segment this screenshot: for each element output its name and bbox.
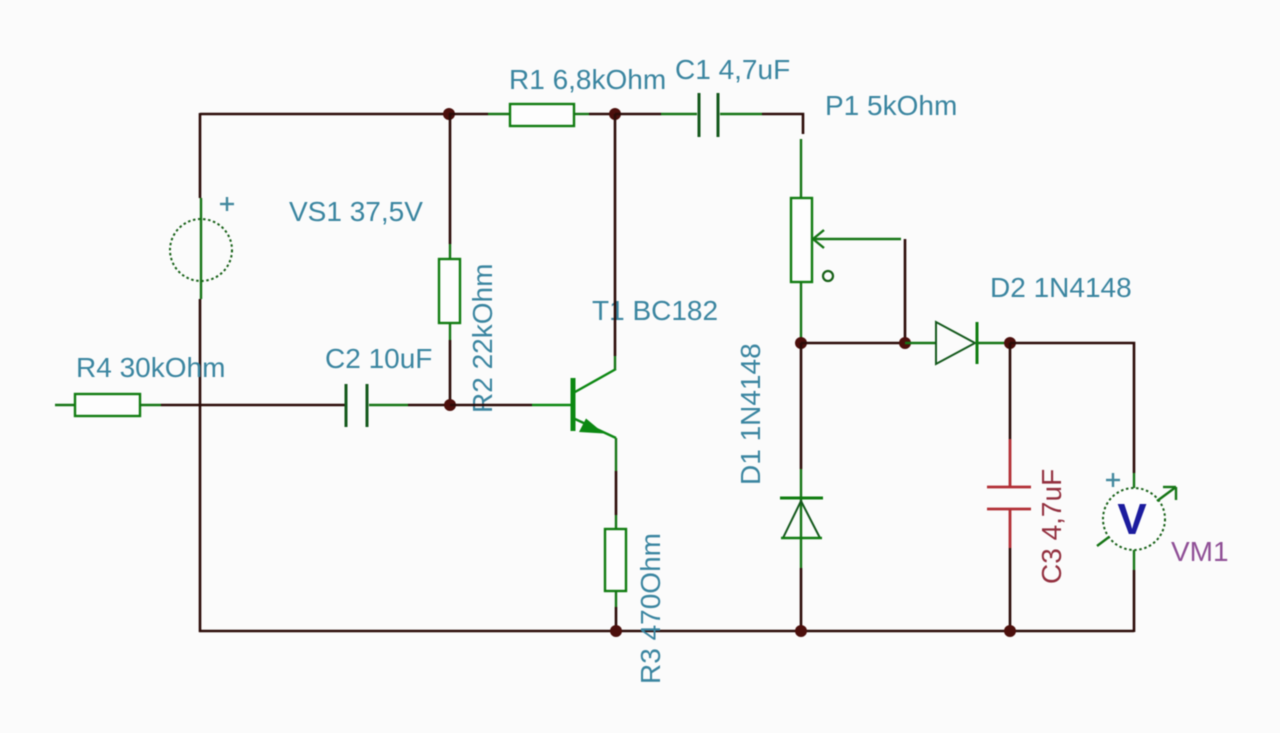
wire D1 top (node C down) [800,343,803,469]
resistor R2 [439,259,460,323]
wire C3 to node I [1009,548,1012,631]
svg-text:R1 6,8kOhm: R1 6,8kOhm [509,64,666,95]
node E (D2 cathode junction) [1004,337,1016,349]
wire node D to D2 [905,342,936,344]
wire T1 emitter lead [615,438,617,471]
svg-text:C2 10uF: C2 10uF [325,343,432,374]
wire C1 left lead [661,113,697,115]
wire R1 right lead [574,113,589,115]
wire R4 to C2 [161,404,345,407]
wire P1 wiper down [904,239,907,343]
wire R2 bottom lead [449,323,451,340]
wire node F to T1 base [450,404,532,407]
svg-text:V: V [1117,495,1147,544]
node H (D1 anode junction) [795,625,807,637]
wire C2 right lead [369,404,408,406]
wire P1 top lead [800,139,802,198]
capacitor C3 [987,439,1031,548]
capacitor C1 [699,93,718,137]
P1 wiper arrow [813,230,901,248]
transistor T1 [573,369,616,438]
svg-text:D1 1N4148: D1 1N4148 [735,343,766,485]
node G (emitter ground junction) [610,625,622,637]
wire C2 to node F [408,404,450,407]
wire D2 right lead [977,342,1004,344]
node A (top junction to R2) [443,108,455,120]
VM1 plus polarity mark [1106,473,1120,487]
resistor R1 [510,104,574,126]
wire R2 top (node A down) [449,114,452,244]
wire R3 to node G [615,607,618,631]
wire R3 bottom lead [615,591,617,607]
svg-text:D2 1N4148: D2 1N4148 [990,272,1132,303]
wire node C to node D [801,342,905,345]
svg-text:VS1 37,5V: VS1 37,5V [289,196,423,227]
svg-text:VM1: VM1 [1171,536,1229,567]
wire C3 top (node E down) [1009,343,1012,439]
capacitor C2 [346,384,367,427]
wire left rail bottom [199,299,202,632]
wire left rail through source (green) [200,198,202,299]
VS1 plus polarity mark [220,197,234,211]
wire R3 top lead [615,515,617,529]
svg-text:P1 5kOhm: P1 5kOhm [825,90,957,121]
wire R1 to node B [589,113,615,116]
wire D1 cathode lead [800,469,802,568]
svg-text:C1 4,7uF: C1 4,7uF [675,54,790,85]
wire bottom rail [199,630,1134,633]
wire P1 bottom lead [800,282,802,338]
wire C1 to P1 corner [762,114,803,134]
voltage source VS1 [170,219,232,281]
node B (collector junction) [609,108,621,120]
resistor R4 [75,394,140,416]
svg-text:R2 22kOhm: R2 22kOhm [467,264,498,413]
wire C1 right lead [720,113,762,115]
wire node A to R1 [449,113,488,116]
wire R2 to node F [449,340,452,405]
svg-text:R3 470Ohm: R3 470Ohm [635,533,666,684]
node D (wiper junction) [899,337,911,349]
wire VM1 top lead [1133,473,1135,488]
P1 terminal circle [823,271,833,281]
voltmeter VM1 [1097,487,1176,550]
wire R2 top lead [449,244,451,259]
node F (base junction) [444,399,456,411]
wire R1 left lead [488,113,510,115]
wire node E to VM corner [1010,343,1134,473]
svg-text:C3 4,7uF: C3 4,7uF [1036,469,1067,584]
wire T1 collector lead [614,356,616,369]
wire VM1 to bottom rail [1133,570,1136,632]
wire node B to C1 [615,113,661,116]
potentiometer P1 [791,198,812,282]
wire D1 to node H [800,568,803,631]
wire top rail left segment [200,113,449,116]
node C (pot bottom junction) [795,337,807,349]
svg-text:R4 30kOhm: R4 30kOhm [76,352,225,383]
svg-text:T1 BC182: T1 BC182 [592,295,718,326]
wire left rail top [199,113,202,198]
node I (C3 bottom junction) [1004,625,1016,637]
wire collector up to node B [614,114,617,356]
wire VM1 bottom lead [1133,550,1135,570]
diode D2 [936,322,977,364]
wire T1 base lead [532,404,571,407]
resistor R3 [605,529,626,591]
diode D1 [780,498,823,538]
wire emitter to R3 [615,471,618,515]
wire input stub [55,404,75,406]
wire R4 right lead [140,404,161,406]
